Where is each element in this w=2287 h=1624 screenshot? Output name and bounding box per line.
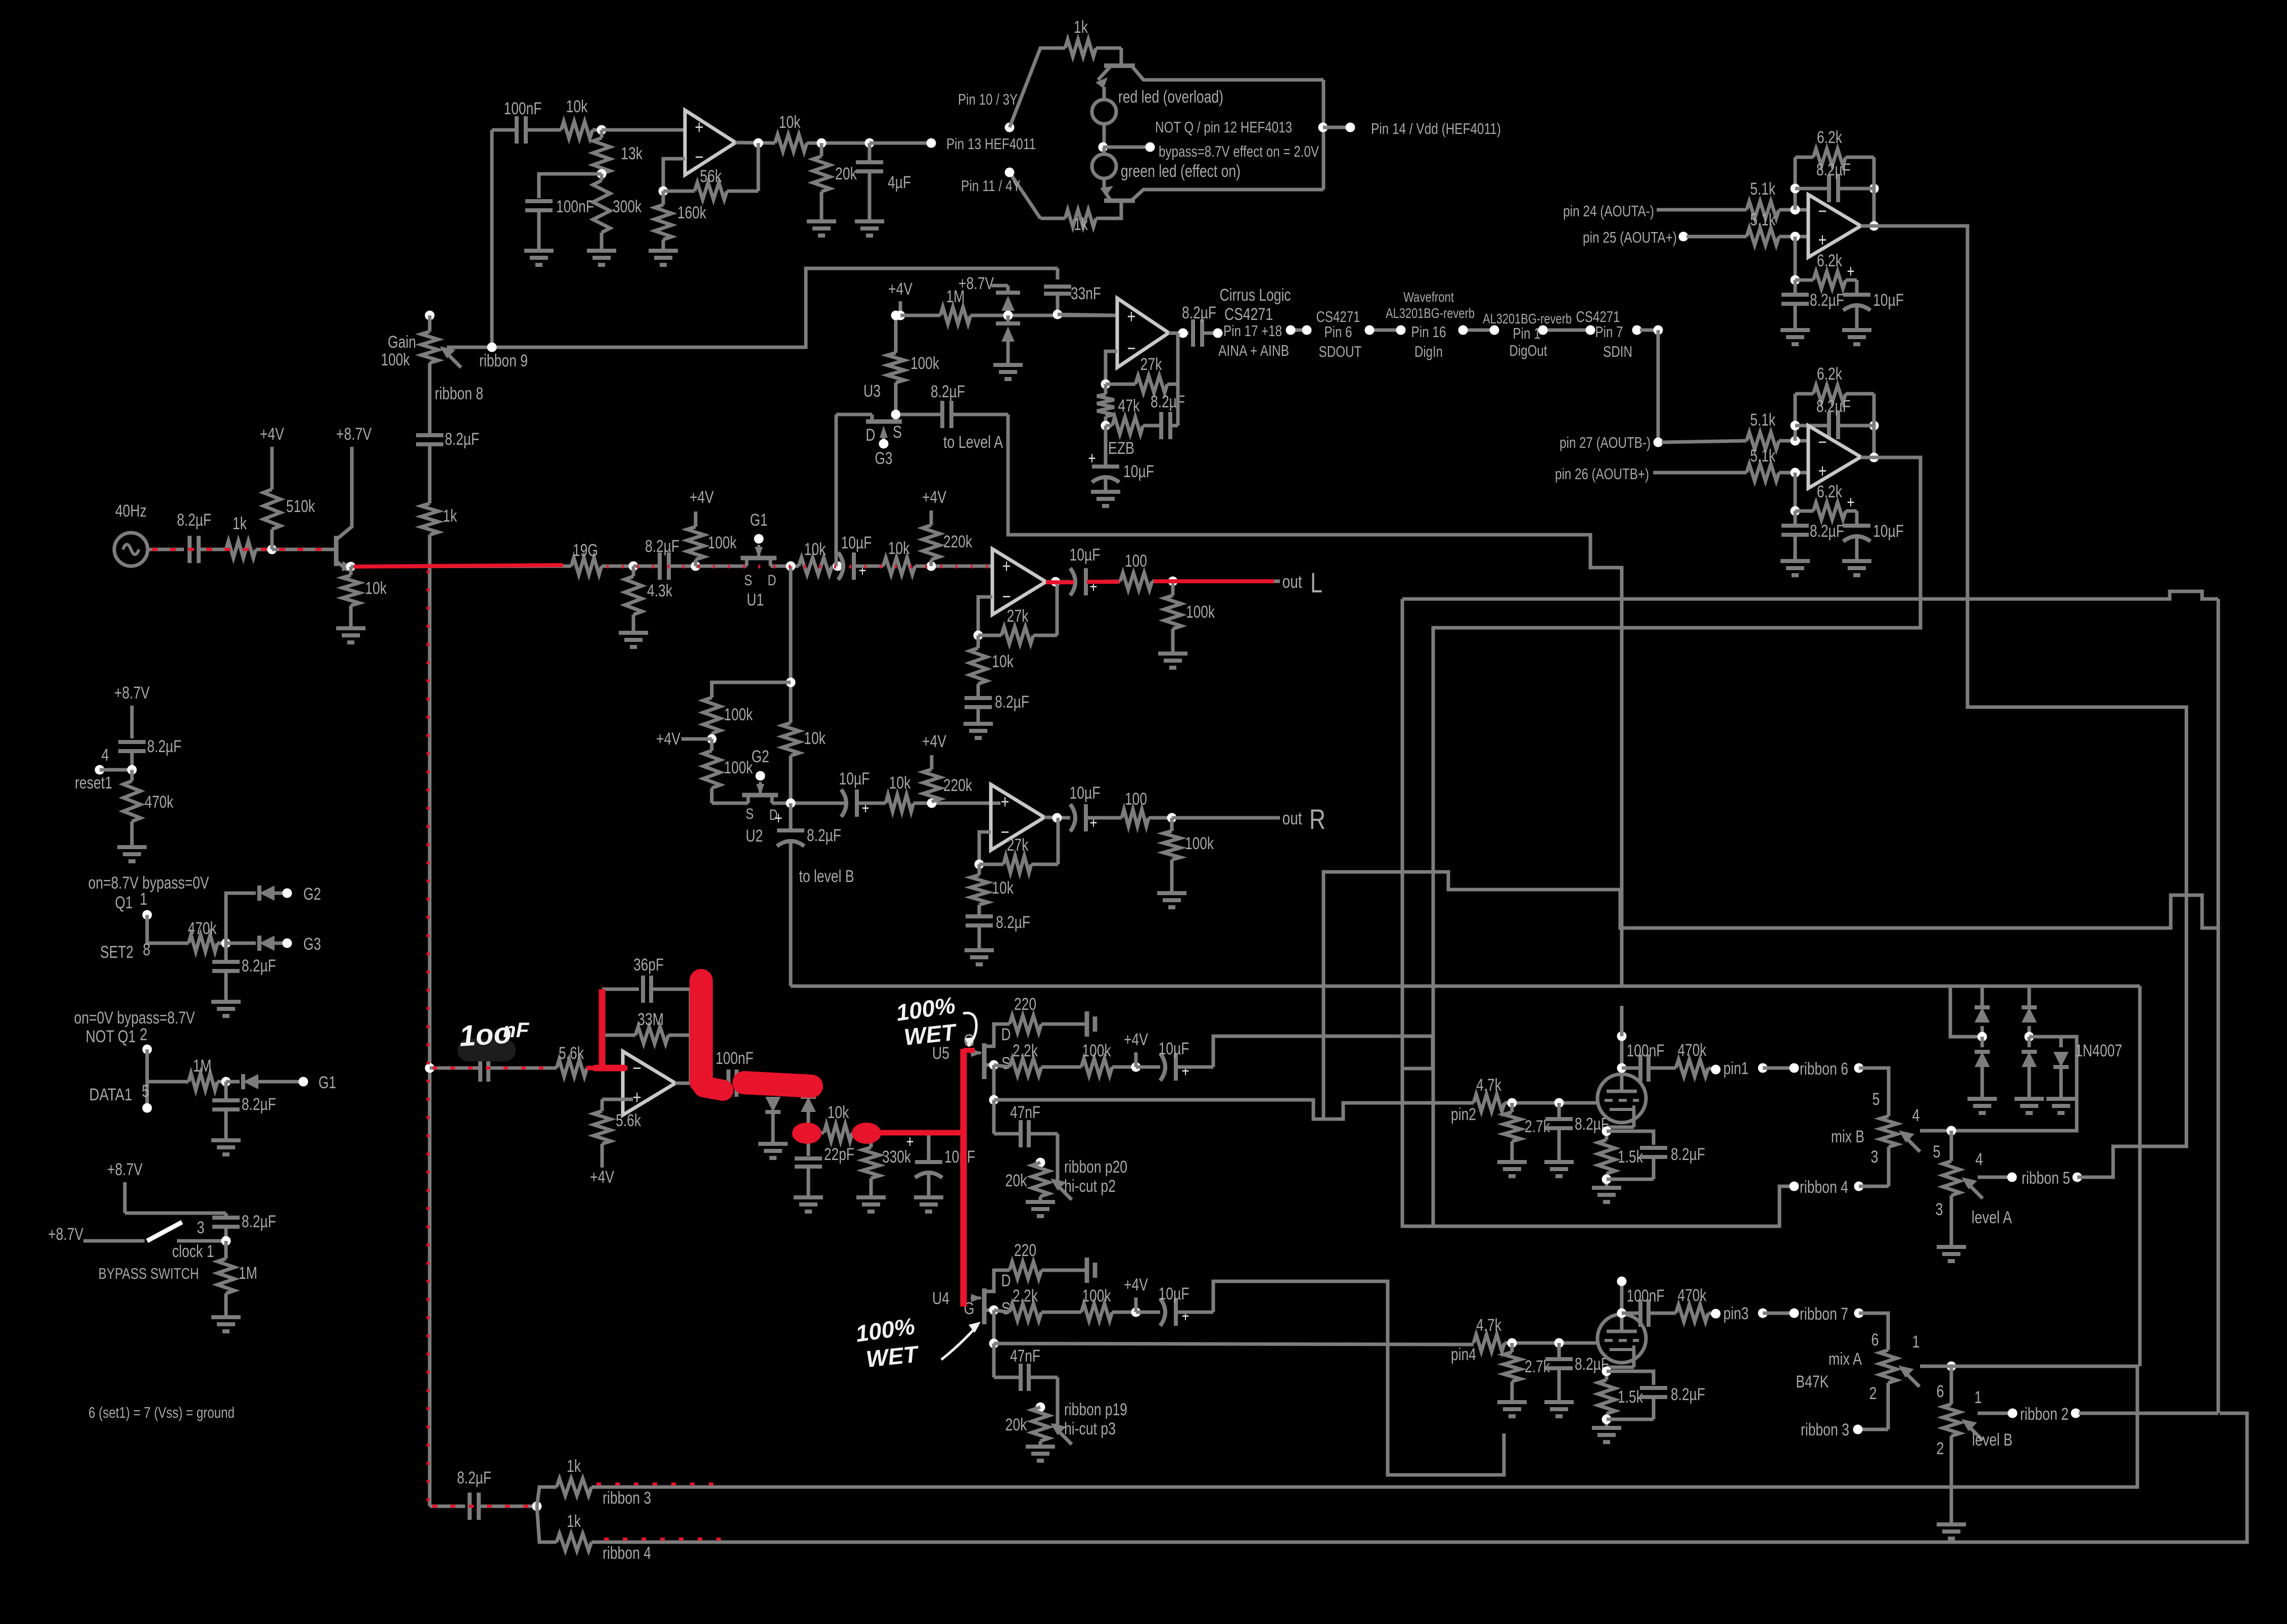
svg-text:6: 6 bbox=[1937, 1382, 1944, 1401]
label Pin 10 / 3Y bbox=[958, 90, 1018, 108]
wire t2 anode bbox=[1620, 1281, 1624, 1314]
svg-text:+: + bbox=[1127, 306, 1136, 328]
wire A plus down bbox=[1794, 237, 1797, 280]
label +8.7V in bbox=[336, 425, 372, 444]
wire after 100nF bbox=[773, 1082, 808, 1085]
label 330k bbox=[882, 1147, 911, 1167]
svg-text:220: 220 bbox=[1014, 995, 1036, 1014]
wire A fb right bbox=[1872, 157, 1876, 226]
node +4V g2 bbox=[707, 734, 717, 744]
node G3 q1 bbox=[283, 939, 292, 948]
node ribbon2 b bbox=[2071, 1409, 2081, 1418]
label 8.2uF t1k bbox=[1671, 1145, 1705, 1164]
label 8.2uF u1 fb bbox=[995, 692, 1029, 712]
resistor 5.1k A2 bbox=[1747, 228, 1808, 245]
label 100nF t1 bbox=[1627, 1041, 1665, 1060]
resistor 5.1k B2 bbox=[1747, 464, 1808, 481]
svg-text:+4V: +4V bbox=[590, 1168, 614, 1187]
op-amp U2 out bbox=[991, 784, 1044, 850]
node cs4 bbox=[1396, 326, 1406, 335]
ground u2 fb bbox=[965, 950, 994, 964]
wire diode box left bbox=[1950, 986, 1982, 1037]
capacitor 10uF u2 bbox=[841, 790, 886, 818]
wire +4V u5 stub bbox=[1134, 1052, 1138, 1067]
handwritten 100nF blob bbox=[458, 1039, 516, 1061]
label 4 reset bbox=[102, 746, 109, 765]
label 1M notq1 bbox=[193, 1056, 212, 1076]
label Pin 17 +18 bbox=[1223, 322, 1282, 340]
label 1k top bbox=[1074, 18, 1088, 37]
label DATA1 bbox=[89, 1085, 132, 1104]
label ribbon 3 bbox=[603, 1489, 651, 1508]
capacitor 8.2uF u1 fb bbox=[965, 698, 992, 724]
label 5.1k B1 bbox=[1750, 410, 1776, 430]
label +4V g2 bbox=[656, 729, 680, 749]
node ribbon5 a bbox=[2007, 1173, 2017, 1182]
node 510k bbox=[267, 545, 277, 554]
resistor 10k u2 fb bbox=[971, 864, 988, 915]
node pin1 bbox=[1711, 1065, 1721, 1075]
wire diode up down bbox=[807, 1133, 810, 1156]
label Pin 14 / Vdd (HEF4011) bbox=[1371, 120, 1501, 137]
node bottom split bbox=[532, 1502, 542, 1511]
wire x4388 bbox=[2217, 599, 2220, 1413]
label 5.6k plus bbox=[616, 1111, 642, 1130]
ground 20k u5 bbox=[1026, 1202, 1055, 1216]
resistor 470k q1 bbox=[189, 935, 226, 952]
svg-text:+4V: +4V bbox=[690, 488, 714, 507]
wire t2 cathode bbox=[1607, 1350, 1634, 1380]
wire 56k to out bbox=[757, 143, 760, 191]
svg-text:4.3k: 4.3k bbox=[647, 581, 673, 600]
label ribbon p19 bbox=[1064, 1400, 1127, 1419]
potentiometer level A bbox=[1943, 1161, 1983, 1247]
diode clamp upper bbox=[996, 293, 1020, 315]
jfet U5 bbox=[971, 1024, 1010, 1079]
svg-text:+8.7V: +8.7V bbox=[336, 425, 372, 444]
node t2 anode bbox=[1617, 1309, 1627, 1318]
resistor 10k u2 bbox=[886, 795, 1000, 812]
label 4.3k bbox=[647, 581, 673, 600]
wire levelB wiper bbox=[1978, 1412, 2009, 1415]
wire g2 S bbox=[712, 802, 748, 805]
wire ribbon4 feed bbox=[537, 1506, 557, 1542]
label AL3201BG-reverb b bbox=[1483, 311, 1572, 327]
wire ribbon4 long bbox=[591, 1413, 2247, 1542]
label 470k reset bbox=[145, 793, 174, 812]
svg-text:+4V: +4V bbox=[1124, 1030, 1148, 1049]
label 8.2uF cs bbox=[1182, 303, 1216, 322]
label 1 levelB bbox=[1975, 1388, 1982, 1407]
label G3 bbox=[875, 449, 893, 468]
resistor 1k in bbox=[226, 541, 272, 558]
svg-text:10k: 10k bbox=[804, 729, 826, 748]
svg-text:8.2µF: 8.2µF bbox=[996, 913, 1030, 932]
svg-text:3: 3 bbox=[1871, 1147, 1879, 1167]
svg-text:AL3201BG-reverb: AL3201BG-reverb bbox=[1386, 305, 1475, 321]
node ribbon9 bbox=[487, 343, 497, 352]
node 4.3k bbox=[629, 562, 638, 571]
label Gain bbox=[388, 333, 416, 352]
node B minus bbox=[1791, 436, 1800, 446]
node 100k u3 top bbox=[891, 311, 901, 320]
svg-text:G2: G2 bbox=[303, 885, 321, 904]
wire outL bbox=[1173, 580, 1280, 583]
svg-text:100k: 100k bbox=[724, 705, 753, 724]
ground 20k bbox=[807, 221, 836, 236]
label G3 q1 bbox=[303, 935, 321, 954]
node t2 a bbox=[1507, 1338, 1517, 1348]
svg-text:8.2µF: 8.2µF bbox=[1151, 392, 1185, 411]
label 22pF bbox=[824, 1145, 854, 1164]
label 10k u2 fb bbox=[992, 878, 1014, 898]
wire 27k u1 up bbox=[1056, 582, 1059, 635]
svg-text:ribbon 4: ribbon 4 bbox=[603, 1544, 651, 1563]
svg-text:1k: 1k bbox=[1074, 215, 1088, 234]
svg-text:ribbon 3: ribbon 3 bbox=[1801, 1420, 1849, 1440]
node pin25 bbox=[1679, 232, 1688, 242]
svg-text:SDOUT: SDOUT bbox=[1319, 343, 1362, 360]
node cs2 bbox=[1302, 326, 1312, 335]
label 36pF bbox=[633, 955, 664, 975]
svg-text:ribbon p20: ribbon p20 bbox=[1064, 1157, 1127, 1177]
svg-text:470k: 470k bbox=[145, 793, 174, 812]
resistor 100k outL bbox=[1164, 581, 1181, 654]
svg-text:level B: level B bbox=[1972, 1430, 2012, 1450]
capacitor 8.2uF in bbox=[190, 536, 226, 563]
svg-text:−: − bbox=[1818, 432, 1827, 453]
svg-text:2: 2 bbox=[1869, 1384, 1877, 1403]
svg-text:1k: 1k bbox=[567, 1457, 581, 1476]
label 8.2uF data1 bbox=[242, 1095, 276, 1114]
wire digin-digout bbox=[1463, 329, 1494, 332]
wire A fb left bbox=[1794, 157, 1797, 210]
svg-text:SET2: SET2 bbox=[100, 943, 133, 962]
label 10k u1 fb bbox=[992, 652, 1014, 671]
wire mixA wiper bbox=[1920, 1365, 2139, 1368]
wire u5 47nF drop bbox=[992, 1100, 996, 1134]
jfet U1 bbox=[741, 545, 776, 566]
svg-text:100k: 100k bbox=[1082, 1041, 1112, 1060]
label 10k u1a bbox=[804, 540, 827, 559]
label 1k in bbox=[233, 514, 247, 533]
node emitter bbox=[346, 562, 356, 572]
wire red dash 33m input bbox=[433, 1066, 556, 1070]
svg-text:CS4271: CS4271 bbox=[1224, 305, 1273, 324]
wire +4V stub u3 bbox=[899, 301, 902, 315]
wire u4 branch2 bbox=[992, 1310, 996, 1343]
node cs1 bbox=[1286, 326, 1296, 335]
label 510k bbox=[286, 497, 315, 516]
node r7 c bbox=[1854, 1309, 1864, 1318]
capacitor 4uF bbox=[856, 143, 883, 221]
svg-text:10k: 10k bbox=[888, 539, 910, 558]
label green led (effect on) bbox=[1121, 162, 1241, 181]
svg-text:100nF: 100nF bbox=[716, 1049, 754, 1068]
svg-text:ribbon 8: ribbon 8 bbox=[435, 384, 483, 403]
source 40Hz bbox=[114, 533, 148, 566]
svg-text:5: 5 bbox=[142, 1082, 150, 1101]
diode down bbox=[765, 1083, 781, 1144]
svg-text:56k: 56k bbox=[700, 167, 722, 186]
svg-text:4.7k: 4.7k bbox=[1476, 1316, 1502, 1335]
svg-text:−: − bbox=[1818, 201, 1827, 222]
triode V2 bbox=[1597, 1314, 1646, 1363]
wire ribbon3 feed bbox=[537, 1487, 557, 1506]
node cs out bbox=[1178, 329, 1188, 338]
wire y1835 staircase bbox=[1323, 872, 2218, 1119]
label 10k bbox=[566, 97, 588, 116]
svg-text:10k: 10k bbox=[992, 878, 1014, 898]
label pin 27 (AOUTB-) bbox=[1560, 434, 1651, 451]
wire t1 k cap bbox=[1607, 1131, 1654, 1145]
wire clock stub bbox=[125, 1182, 226, 1213]
wire to 100nF2 bbox=[539, 174, 602, 198]
svg-text:10µF: 10µF bbox=[1159, 1284, 1190, 1304]
node 33nF bottom bbox=[1053, 310, 1063, 319]
label S u3 bbox=[893, 423, 902, 442]
node cs6 bbox=[1490, 326, 1499, 335]
label 1k bottom bbox=[1074, 215, 1088, 234]
resistor 300k bbox=[593, 174, 610, 251]
resistor 1k ribbon3 bbox=[557, 1478, 591, 1496]
svg-text:+: + bbox=[1002, 556, 1011, 577]
wire red node line bbox=[867, 1131, 964, 1135]
label 10k red bbox=[828, 1103, 850, 1122]
label hi-cut p2 bbox=[1064, 1177, 1116, 1196]
svg-text:8: 8 bbox=[143, 940, 151, 959]
capacitor 100nF t1 bbox=[1622, 1054, 1676, 1082]
wire base bbox=[272, 548, 328, 551]
label G u5 bbox=[964, 1031, 975, 1050]
label 19G bbox=[573, 541, 598, 560]
capacitor 10uF u5 bbox=[1160, 1053, 1213, 1081]
potentiometer 20k u4 bbox=[1032, 1407, 1072, 1447]
capacitor 100nF input filter bbox=[492, 116, 557, 144]
label 2 notq1 bbox=[140, 1025, 148, 1044]
ground levelA bbox=[1937, 1247, 1966, 1261]
svg-text:ribbon 3: ribbon 3 bbox=[603, 1489, 651, 1508]
label plus B net bbox=[1847, 493, 1855, 512]
node B fbr bbox=[1869, 421, 1879, 431]
wire switch right bbox=[177, 1239, 226, 1243]
ground 1N4007 bbox=[2046, 1099, 2076, 1113]
label 5.6k 33m bbox=[559, 1044, 584, 1063]
svg-text:10k: 10k bbox=[992, 652, 1014, 671]
label 8.2uF ezb bbox=[1151, 392, 1185, 411]
label Pin 7 bbox=[1595, 323, 1623, 341]
svg-text:hi-cut p2: hi-cut p2 bbox=[1064, 1177, 1116, 1196]
label 300k bbox=[613, 197, 642, 216]
label pin1 bbox=[1723, 1059, 1749, 1078]
svg-text:ribbon 6: ribbon 6 bbox=[1800, 1059, 1848, 1079]
svg-text:Wavefront: Wavefront bbox=[1403, 289, 1454, 305]
wire u4 out bbox=[1213, 1281, 1504, 1475]
diode 1N4007 bbox=[2053, 1037, 2069, 1099]
label 1M u3 bbox=[946, 287, 965, 306]
label 100k u4 bbox=[1082, 1286, 1112, 1306]
ground 22pF bbox=[794, 1197, 823, 1212]
node u5 4v bbox=[1131, 1062, 1141, 1072]
label 100k gain bbox=[381, 350, 410, 369]
wire sdin right bbox=[1640, 329, 1658, 332]
node 100k u1 bbox=[691, 562, 701, 571]
label 10uF u5 bbox=[1159, 1039, 1190, 1058]
label 100k g2 upper bbox=[724, 705, 753, 724]
svg-text:+4V: +4V bbox=[656, 729, 680, 749]
wire cs-sdout bbox=[1291, 329, 1307, 332]
ground 4.3k bbox=[619, 633, 648, 647]
svg-text:D: D bbox=[768, 572, 776, 589]
node G1 nq bbox=[299, 1077, 308, 1087]
label 47nF u4 bbox=[1010, 1347, 1040, 1366]
ground 2.7k t2 bbox=[1497, 1402, 1527, 1416]
svg-text:NOT Q / pin 12 HEF4013: NOT Q / pin 12 HEF4013 bbox=[1155, 118, 1292, 136]
resistor 10k u1b bbox=[883, 558, 992, 575]
label +8.7V diodes bbox=[958, 274, 994, 293]
svg-text:+: + bbox=[1182, 1307, 1190, 1326]
handwritten 100nF bbox=[458, 1016, 529, 1053]
svg-text:Pin 14 / Vdd (HEF4011): Pin 14 / Vdd (HEF4011) bbox=[1371, 120, 1501, 137]
node A fbl bbox=[1791, 184, 1800, 194]
label on=8.7V bypass=0V bbox=[88, 873, 209, 893]
label D u1 bbox=[768, 572, 776, 589]
svg-text:L: L bbox=[1310, 567, 1322, 598]
label U4 bbox=[932, 1289, 949, 1308]
svg-text:6: 6 bbox=[1871, 1330, 1879, 1350]
wire input filter left vertical bbox=[490, 130, 494, 347]
capacitor 8.2uF ribbon8 bbox=[416, 435, 443, 503]
node u2 d bbox=[786, 799, 796, 808]
svg-text:+: + bbox=[633, 1087, 642, 1108]
svg-text:pin1: pin1 bbox=[1723, 1059, 1749, 1078]
ground clock bbox=[211, 1317, 241, 1331]
wire red solid 33m in bbox=[586, 1066, 627, 1071]
label 33nF bbox=[1071, 284, 1101, 303]
node cs10 bbox=[1654, 326, 1663, 335]
label Wavefront bbox=[1403, 289, 1454, 305]
wire u4 branch2 h bbox=[994, 1343, 1474, 1344]
node A minus bbox=[1791, 205, 1800, 215]
label U2 bbox=[746, 826, 763, 846]
resistor 10k after opamp1 bbox=[775, 134, 870, 152]
label 100k u5 bbox=[1082, 1041, 1112, 1060]
svg-text:G3: G3 bbox=[875, 449, 893, 468]
label reset1 bbox=[75, 773, 112, 793]
node t1 b bbox=[1554, 1098, 1564, 1108]
label mix B bbox=[1831, 1127, 1864, 1146]
svg-text:8.2µF: 8.2µF bbox=[1182, 303, 1216, 322]
ground A net2 bbox=[1842, 330, 1871, 344]
ground outR bbox=[1157, 893, 1186, 907]
wire data1 bbox=[146, 1082, 149, 1108]
node NOT Q right bbox=[1146, 143, 1155, 152]
label G1 nq bbox=[318, 1073, 336, 1092]
node 27k u1 bbox=[974, 631, 983, 640]
wire red thin fb vert bbox=[596, 989, 624, 1069]
label 10uF u1 out bbox=[1070, 545, 1101, 565]
label ribbon 5 bbox=[2022, 1169, 2070, 1188]
svg-text:AINA + AINB: AINA + AINB bbox=[1218, 342, 1289, 359]
label 2.7k t2 bbox=[1525, 1357, 1550, 1376]
node t2 top bbox=[1617, 1277, 1627, 1286]
label 8.2uF t1 bbox=[1575, 1115, 1609, 1134]
wire red outL bbox=[1154, 579, 1274, 583]
wire red out u1 bbox=[1046, 582, 1119, 582]
node pin13 bbox=[927, 138, 936, 148]
resistor 4.7k t1 bbox=[1474, 1094, 1598, 1111]
capacitor 8.2uF A net bbox=[1781, 280, 1809, 330]
wire to pin13 bbox=[870, 142, 931, 145]
wire B fb right bbox=[1872, 394, 1876, 457]
resistor 33M bbox=[602, 1027, 691, 1044]
label out R bbox=[1283, 803, 1326, 835]
capacitor 8.2uF u2 bbox=[775, 803, 805, 986]
svg-text:470k: 470k bbox=[1678, 1286, 1707, 1305]
wire sdout-digin bbox=[1369, 329, 1401, 332]
capacitor 10uF ezb bbox=[1088, 449, 1120, 492]
node 47k bottom bbox=[1101, 421, 1111, 431]
ground 300k bbox=[587, 251, 616, 265]
label ribbon 9 bbox=[479, 351, 528, 370]
node t2 b bbox=[1554, 1338, 1564, 1348]
red led circle bbox=[1092, 87, 1116, 147]
label 2.2k u5 bbox=[1013, 1041, 1038, 1060]
label 10k u2 in bbox=[804, 729, 826, 748]
node cs5 bbox=[1458, 326, 1468, 335]
label 6.2k A net bbox=[1817, 251, 1843, 270]
label 1M clock bbox=[239, 1264, 257, 1283]
resistor 100k g2 lower bbox=[703, 739, 720, 803]
diode chain2 bottom bbox=[2022, 1037, 2037, 1099]
node u1 out bbox=[1051, 577, 1061, 587]
svg-text:+: + bbox=[1001, 792, 1010, 813]
wire +4V u4 stub bbox=[1134, 1297, 1138, 1312]
resistor 20k bbox=[813, 143, 830, 221]
label 10uF A net bbox=[1873, 291, 1904, 310]
label +4V in bbox=[260, 425, 284, 444]
node B out bbox=[1869, 453, 1879, 462]
svg-text:ribbon 9: ribbon 9 bbox=[479, 351, 528, 370]
resistor 510k bbox=[263, 476, 281, 549]
resistor 2.7k t2 bbox=[1503, 1343, 1521, 1402]
potentiometer Gain 100k bbox=[421, 315, 461, 434]
capacitor 8.2uF cs bbox=[1193, 319, 1214, 347]
label 100 u2 bbox=[1125, 790, 1147, 809]
node gain top bbox=[425, 311, 435, 320]
wire t1 up bbox=[1620, 1006, 1624, 1036]
jfet U3 bbox=[836, 414, 902, 443]
node out R bbox=[1167, 813, 1177, 823]
label red led (overload) bbox=[1118, 87, 1223, 107]
svg-text:1: 1 bbox=[1912, 1332, 1920, 1352]
svg-text:+4V: +4V bbox=[1124, 1275, 1148, 1294]
wire red gate stub u5 bbox=[964, 1048, 975, 1053]
ground t2 bbox=[1592, 1428, 1621, 1442]
label Cirrus Logic bbox=[1220, 286, 1291, 305]
label 4.7k t2 bbox=[1476, 1316, 1502, 1335]
node 220k u1 bbox=[927, 562, 936, 571]
svg-text:27k: 27k bbox=[1007, 836, 1029, 855]
label 10uF red bbox=[944, 1147, 975, 1167]
svg-text:100: 100 bbox=[1125, 790, 1147, 809]
svg-text:4: 4 bbox=[102, 746, 109, 765]
wire ezb right bbox=[1176, 333, 1180, 426]
wire u1 op out bbox=[1046, 580, 1070, 584]
label 10uF u1 bbox=[841, 533, 872, 552]
label 100k u1 bbox=[708, 533, 737, 552]
svg-text:10µF: 10µF bbox=[1159, 1039, 1190, 1058]
